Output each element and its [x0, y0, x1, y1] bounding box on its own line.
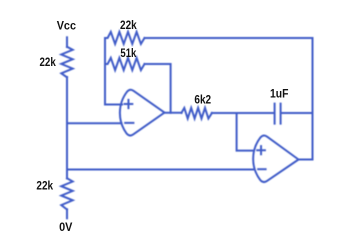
wire to 0V — [66, 209, 68, 218]
op-amp U2 minus sign — [258, 168, 265, 170]
resistor R5 6k2 — [181, 108, 212, 119]
wire op-amp2 output — [299, 159, 313, 161]
resistor R3 22k (top feedback) — [105, 32, 145, 44]
wire divider mid vertical — [66, 77, 68, 178]
wire feedback bus vertical — [104, 38, 106, 105]
wire 6k2 to capacitor — [212, 112, 274, 114]
resistor R4 51k — [105, 58, 145, 70]
wire op-amp1 non-inverting input — [105, 104, 122, 106]
wire top feedback to right rail — [145, 37, 313, 39]
wire capacitor to right rail — [282, 112, 313, 114]
wire junction down to op-amp2 non-inverting input — [237, 113, 254, 151]
wire right rail vertical — [312, 38, 314, 160]
resistor R2 22k (lower divider) — [61, 178, 72, 209]
svg-text:Vcc: Vcc — [57, 18, 77, 32]
op-amp U1 — [120, 90, 165, 136]
svg-text:22k: 22k — [36, 179, 53, 193]
wire 51k to op-amp1 output — [145, 64, 171, 113]
svg-text:6k2: 6k2 — [194, 93, 211, 107]
svg-text:22k: 22k — [120, 18, 137, 32]
op-amp U2 — [253, 135, 298, 182]
svg-text:51k: 51k — [120, 46, 136, 60]
node Vcc supply wire — [66, 37, 68, 47]
resistor R1 22k (upper divider) — [61, 47, 72, 78]
op-amp U2 plus sign — [257, 146, 265, 154]
svg-text:22k: 22k — [40, 55, 57, 69]
wire op-amp1 output — [165, 112, 182, 114]
wire op-amp1 inverting input — [67, 122, 122, 124]
svg-text:1uF: 1uF — [270, 87, 288, 101]
wire op-amp2 inverting input — [67, 169, 253, 171]
op-amp U1 plus sign — [125, 100, 133, 108]
op-amp U1 minus sign — [125, 122, 133, 124]
capacitor C1 1uF — [275, 104, 281, 124]
svg-text:0V: 0V — [59, 220, 72, 234]
